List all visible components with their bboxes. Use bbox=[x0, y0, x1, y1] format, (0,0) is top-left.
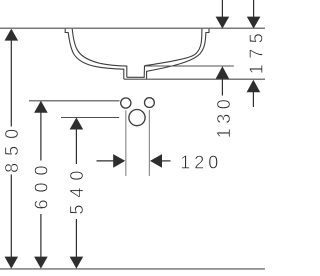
drain recess inner bottom bbox=[127, 66, 145, 78]
svg-text:130: 130 bbox=[214, 95, 234, 139]
dimension 540 line lower segment bbox=[75, 219, 77, 258]
dimension 600 line lower segment bbox=[40, 214, 42, 258]
basin outer profile left bbox=[65, 29, 124, 79]
svg-text:175: 175 bbox=[246, 28, 265, 75]
node 600 reference line bbox=[29, 100, 120, 102]
svg-text:600: 600 bbox=[31, 158, 51, 209]
dimension 600 up arrow bbox=[34, 101, 48, 113]
dimension 600 down arrow bbox=[34, 257, 48, 269]
wire floor line bbox=[0, 268, 265, 270]
wire gray extension line left (120 dim) bbox=[125, 110, 127, 176]
dimension 850 line lower segment bbox=[10, 175, 12, 259]
faucet hole circle left bbox=[121, 98, 131, 108]
dimension 175 top extension tail bbox=[253, 0, 255, 18]
svg-text:850: 850 bbox=[2, 122, 22, 173]
wire top mounting line bbox=[0, 27, 265, 29]
dimension 850 down arrow bbox=[5, 257, 19, 269]
node 540 reference line bbox=[61, 117, 119, 119]
dimension 130 top extension tail bbox=[221, 0, 223, 18]
dimension 540 up arrow bbox=[70, 118, 84, 130]
dimension 175 top down arrow bbox=[247, 17, 261, 29]
dimension 120 right-pointing arrow bbox=[113, 154, 125, 168]
basin inner profile left bbox=[72, 29, 127, 78]
dimension 130 top down arrow bbox=[216, 17, 230, 29]
faucet hole circle right bbox=[145, 98, 155, 108]
node 175 reference line (drain bottom level) bbox=[124, 78, 265, 80]
dimension 850 up arrow bbox=[5, 29, 19, 41]
dimension 130 bottom tail bbox=[221, 79, 223, 96]
wire gray extension line right (120 dim) bbox=[148, 110, 150, 176]
dimension 540 down arrow bbox=[70, 257, 84, 269]
dimension 850 line upper segment bbox=[10, 39, 12, 127]
svg-text:540: 540 bbox=[67, 164, 87, 215]
node 130 reference line (bowl bottom level) bbox=[145, 65, 234, 67]
dimension 540 line upper segment bbox=[75, 127, 77, 164]
dimension 120 left-pointing arrow bbox=[150, 154, 162, 168]
basin outer profile right bbox=[147, 29, 209, 79]
svg-text:120: 120 bbox=[180, 152, 222, 172]
dimension 175 bottom tail bbox=[252, 92, 254, 107]
dimension 130 bottom up arrow bbox=[216, 66, 230, 79]
faucet hole circle large center bbox=[129, 110, 145, 126]
basin inner profile right bbox=[145, 29, 202, 66]
dimension 120 left tail bbox=[97, 160, 115, 162]
dimension 600 line upper segment bbox=[40, 111, 42, 161]
dimension 120 right tail bbox=[162, 160, 171, 162]
dimension 175 bottom up arrow bbox=[247, 80, 261, 93]
